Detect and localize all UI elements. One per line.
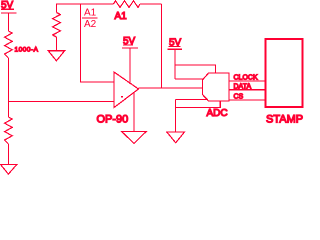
power 5V supply op-amp [122, 45, 138, 84]
op-amp inverting dot [121, 96, 123, 98]
wire node to op-amp non-inverting input [8, 101, 114, 103]
wire CLOCK [229, 80, 265, 82]
svg-text:5V: 5V [123, 36, 136, 47]
ground left bottom [1, 165, 17, 175]
svg-text:OP-90: OP-90 [97, 114, 129, 126]
wire ADC analog ground input [176, 99, 207, 101]
wire DATA [229, 89, 265, 91]
svg-text:A2: A2 [84, 19, 97, 30]
wire ADC Vcc branch [175, 65, 215, 73]
svg-text:A1: A1 [115, 11, 128, 22]
wire op-amp ground pin [133, 92, 135, 132]
wire top loop right [140, 3, 162, 5]
wire feedback drop to output [161, 4, 163, 88]
wire left rail middle [7, 58, 9, 117]
wire ADC Vref input [175, 78, 204, 80]
svg-text:ADC: ADC [207, 108, 228, 119]
ground ADC [167, 132, 185, 143]
svg-text:5V: 5V [1, 0, 14, 11]
wire op-amp output [139, 87, 203, 89]
wire top loop corner from R4 [57, 4, 114, 13]
svg-text:STAMP: STAMP [266, 114, 303, 126]
svg-text:DATA: DATA [234, 84, 252, 91]
resistor R1 (1000-A) [5, 31, 13, 58]
STAMP module box [266, 39, 303, 107]
wire ADC ground rail [175, 100, 177, 133]
svg-text:5V: 5V [169, 38, 182, 49]
svg-text:CS: CS [234, 94, 244, 101]
svg-text:A1: A1 [84, 8, 97, 19]
ADC U2 body [202, 73, 229, 101]
power 5V supply symbol left [1, 9, 17, 31]
resistor R2 lower divider [5, 117, 13, 144]
wire CS [229, 99, 265, 101]
svg-text:1000-A: 1000-A [15, 47, 39, 54]
op-amp U1 triangle [114, 72, 139, 108]
resistor R4 mid divider [53, 13, 61, 38]
label A1/A2 fraction [84, 8, 97, 31]
resistor R3 feedback A1 [114, 1, 141, 8]
wire inverting input branch [81, 4, 115, 82]
ground mid [48, 51, 64, 61]
wire R4 to ground [56, 37, 58, 51]
power 5V supply ADC [168, 47, 183, 80]
wire left rail bottom [7, 144, 9, 165]
ground op-amp [122, 132, 147, 144]
svg-text:CLOCK: CLOCK [234, 75, 258, 82]
wire ADC bottom pin return [176, 101, 221, 108]
